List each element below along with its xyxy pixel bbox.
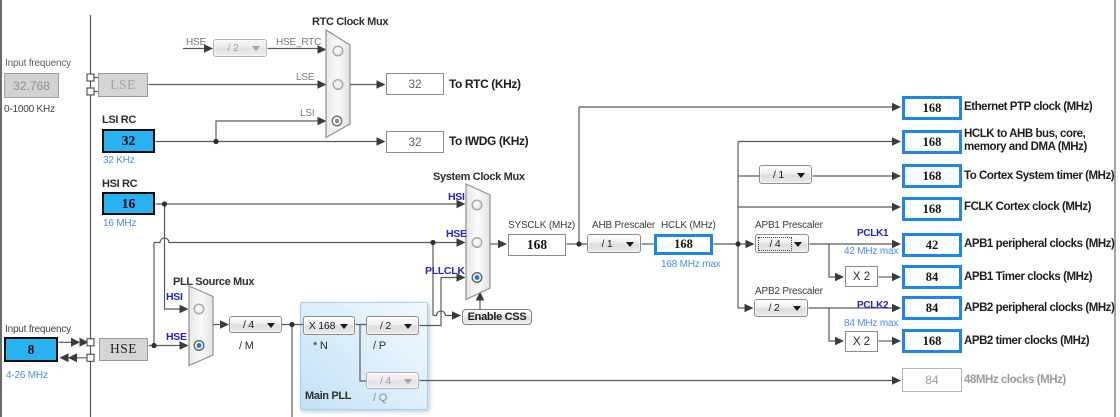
mux PLL Source Mux	[189, 286, 213, 366]
dropdown APB1 div4 focused	[755, 234, 809, 253]
arrowhead row2	[892, 137, 901, 145]
right panel border	[1114, 0, 1116, 417]
wire HSE box to PLL mux	[149, 345, 181, 347]
arrowhead row3	[892, 172, 901, 180]
wire LSE to RTC mux	[149, 84, 319, 86]
junction dot HSE branch	[151, 343, 156, 348]
wire main vertical rail	[90, 15, 92, 417]
label 32 KHz	[103, 155, 135, 166]
arrowhead into X2a	[835, 273, 844, 281]
arrowhead row9 48M	[892, 376, 901, 384]
junction dot LSI branch	[213, 139, 218, 144]
wire LSI branch to RTC mux	[216, 121, 318, 142]
wire dist vertical rail	[737, 142, 739, 309]
value box row1 Ethernet PTP	[902, 96, 962, 120]
wire mulN to divP and divQ	[356, 325, 367, 382]
source box HSI RC 16	[102, 192, 155, 215]
wire row2 HCLK AHB bus	[738, 141, 892, 143]
radio SYS HSI unselected	[472, 200, 482, 210]
arrowhead into X2b	[835, 337, 844, 345]
label AHB Prescaler	[592, 220, 655, 231]
arrowhead into APB2 prescaler	[745, 304, 754, 312]
label / Q	[373, 392, 387, 404]
value box row9 48MHz	[902, 368, 962, 392]
button Enable CSS	[462, 309, 532, 325]
radio RTC LSE unselected	[333, 80, 343, 90]
mux System Clock Mux	[466, 184, 490, 300]
title RTC Clock Mux	[312, 16, 388, 28]
arrowhead HSE into system mux	[457, 238, 466, 246]
arrowhead row8	[892, 337, 901, 345]
label HSI RC	[102, 178, 137, 190]
label Input frequency bottom	[5, 324, 71, 335]
label To Cortex System timer	[964, 170, 1114, 183]
label HSI blue	[448, 191, 465, 203]
label 0-1000 KHz	[4, 104, 55, 115]
junction dot HCLK branch	[735, 241, 740, 246]
wire CSS horizontal with hop	[433, 311, 452, 316]
label APB2 Prescaler	[755, 286, 823, 297]
label HSE top gray	[186, 37, 206, 48]
label PCLK1	[857, 228, 888, 239]
radio SYS HSE unselected	[472, 238, 482, 248]
label 84 MHz max	[844, 318, 898, 329]
wire row1 Ethernet	[579, 106, 892, 108]
label FCLK Cortex clock	[964, 201, 1091, 214]
wire SYSCLK vertical to Ethernet row	[578, 107, 580, 244]
label 42 MHz max	[844, 246, 898, 257]
value box row7 APB2 peripheral	[902, 296, 962, 320]
Main PLL block	[300, 302, 428, 410]
wire LSI RC to IWDG box	[156, 141, 378, 143]
node square LSE top	[87, 74, 94, 81]
dropdown HSE_RTC div2 disabled	[213, 39, 267, 57]
wire SYSCLK to AHB prescaler	[567, 243, 589, 245]
arrowhead row7	[892, 304, 901, 312]
dropdown divQ / 4 disabled	[366, 372, 419, 389]
label 48MHz clocks	[964, 374, 1066, 387]
label 168 MHz max	[661, 259, 721, 270]
arrowhead into Enable CSS	[452, 311, 461, 319]
left panel border	[0, 0, 2, 417]
arrowhead HSE to div2	[204, 44, 213, 52]
arrowhead into IWDG box	[377, 137, 386, 145]
label APB1 Timer clocks	[964, 271, 1092, 284]
radio PLL HSE selected	[194, 341, 204, 351]
label Input frequency top	[5, 58, 71, 69]
label / M	[239, 340, 254, 352]
dropdown AHB div1	[587, 234, 641, 253]
wire HSE_RTC div2 to RTC mux	[268, 48, 319, 50]
value box To IWDG	[386, 131, 444, 153]
junction dot HSE CSS branch	[430, 240, 435, 245]
wire APB2 out row7	[809, 307, 893, 309]
dropdown divM / 4	[229, 316, 282, 333]
arrowhead HSE into PLL mux	[180, 341, 189, 349]
label Ethernet PTP clock	[964, 101, 1092, 114]
value box HCLK	[654, 234, 713, 255]
label To IWDG (KHz)	[449, 135, 528, 148]
wire HSI RC to system mux	[156, 203, 458, 205]
wire HSE to system mux with hop	[154, 238, 457, 243]
value box To RTC	[386, 73, 444, 95]
junction dot SYSCLK branch	[576, 241, 581, 246]
wire divP to system mux PLLCLK	[420, 278, 458, 326]
wire row4 FCLK	[738, 206, 892, 208]
wire APB1 prescaler feed	[738, 243, 746, 245]
label HSI blue PLL	[166, 291, 183, 303]
arrowhead HSI into PLL mux	[180, 305, 189, 313]
wire HCLK to dist rail	[714, 243, 739, 245]
dropdown divP / 2	[366, 316, 419, 335]
X2 multiplier APB2	[845, 331, 878, 352]
label HSE blue	[446, 228, 467, 240]
label HSE blue PLL	[166, 331, 187, 343]
dropdown APB2 div2	[754, 299, 808, 317]
label LSI RC	[102, 114, 136, 126]
value box row6 APB1 timer	[902, 265, 962, 289]
label LSE gray	[296, 72, 314, 83]
label / P	[373, 340, 386, 352]
label 16 MHz	[103, 218, 136, 229]
wire LSE input stubs	[94, 78, 98, 92]
value box SYSCLK	[508, 234, 566, 256]
wire HSI vertical to PLL mux	[165, 204, 181, 309]
wire APB1 X2 branch	[829, 244, 835, 277]
label * N	[313, 340, 328, 352]
label HSE_RTC	[276, 37, 321, 48]
value box row4 FCLK	[902, 197, 962, 221]
arrowhead into divM	[220, 320, 229, 328]
value box row5 APB1 peripheral	[902, 233, 962, 257]
wire AHB to HCLK	[642, 243, 655, 245]
wire HSE label to div2	[183, 48, 205, 50]
arrowhead into RTC box	[377, 80, 386, 88]
wire divQ to 48M box	[420, 380, 893, 382]
wire X2b to row8	[879, 340, 893, 342]
arrowhead into SYSCLK box	[498, 240, 507, 248]
label APB1 Prescaler	[755, 220, 823, 231]
label To RTC (KHz)	[449, 78, 521, 91]
arrowhead PLLCLK into system mux	[457, 273, 466, 281]
wire X2a to row6	[879, 276, 893, 278]
radio RTC HSE_RTC unselected	[333, 46, 343, 56]
Main PLL label	[305, 390, 351, 402]
node square HSE top	[87, 339, 94, 346]
arrowhead LSE into RTC mux	[318, 80, 327, 88]
wire HSE vertical rail	[153, 243, 155, 346]
arrowhead HSE input double right	[71, 338, 80, 347]
node square HSE bottom	[87, 354, 94, 361]
label LSI gray	[300, 108, 314, 119]
wire APB1 out row5	[810, 243, 893, 245]
radio SYS PLLCLK selected	[472, 273, 482, 283]
source box LSI RC 32	[102, 129, 155, 153]
mux RTC Clock Mux	[326, 30, 350, 138]
wire HSE to CSS vertical	[432, 243, 434, 316]
arrowhead HSE_RTC into RTC mux	[318, 45, 327, 53]
input box 8	[4, 337, 58, 362]
input box 32.768	[4, 73, 59, 98]
label APB2 peripheral clocks	[964, 302, 1114, 315]
junction dot PLLI2S branch	[289, 322, 294, 327]
wire APB2 X2 branch	[829, 308, 835, 341]
wire HSE input arrows left	[68, 357, 94, 359]
label 4-26 MHz	[6, 370, 48, 381]
arrowhead CSS up into mux	[476, 292, 485, 301]
wire APB2 prescaler feed	[738, 307, 745, 309]
label APB2 timer clocks	[964, 335, 1089, 348]
wire CSS arrow vertical	[479, 297, 481, 309]
wire row3 cortex timer	[738, 175, 892, 177]
arrowhead HSE input double left	[60, 353, 69, 362]
value box row3 cortex timer	[902, 164, 962, 188]
radio PLL HSI unselected	[194, 304, 204, 314]
wire PLL mux to divM	[214, 324, 222, 326]
label HCLK to AHB	[964, 128, 1087, 154]
wire HSE input arrows right	[59, 341, 73, 343]
arrowhead into APB1 prescaler	[746, 240, 755, 248]
dropdown cortex div1	[759, 165, 812, 184]
wire PLLI2S branch vertical	[291, 325, 293, 417]
wire system mux to SYSCLK box	[491, 243, 499, 245]
label APB1 peripheral clocks	[964, 238, 1114, 251]
arrowhead row5	[892, 240, 901, 248]
arrowhead row4	[892, 203, 901, 211]
HSE source box	[99, 338, 148, 361]
arrowhead HSI into system mux	[457, 200, 466, 208]
node square LSE bottom	[87, 88, 94, 95]
arrowhead row6	[892, 273, 901, 281]
value box row2 HCLK AHB	[902, 130, 962, 154]
label PCLK2	[857, 300, 888, 311]
label HCLK (MHz)	[661, 220, 716, 231]
wire divM to mulN	[282, 324, 304, 326]
label SYSCLK (MHz)	[508, 220, 575, 231]
arrowhead LSI into RTC mux	[318, 117, 327, 125]
label PLLCLK blue	[425, 265, 465, 277]
value box row8 APB2 timer	[902, 329, 962, 353]
title System Clock Mux	[433, 171, 525, 183]
title PLL Source Mux	[173, 276, 254, 288]
arrowhead row1	[892, 103, 901, 111]
radio RTC LSI selected	[332, 116, 342, 126]
junction dot HSI branch	[162, 201, 167, 206]
LSE source box	[98, 73, 148, 97]
dropdown mulN X 168	[303, 316, 355, 335]
X2 multiplier APB1	[845, 266, 878, 287]
wire RTC mux to RTC box	[351, 84, 378, 86]
